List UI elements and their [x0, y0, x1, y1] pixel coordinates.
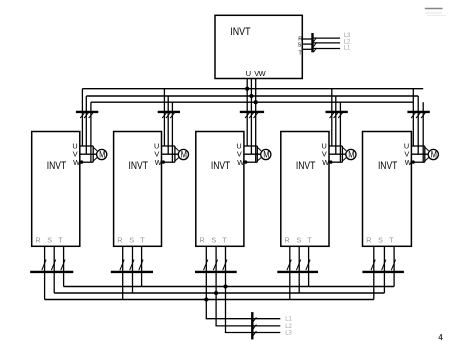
wire U3-V to motor (middle row): [244, 153, 261, 155]
junction dot U3-S on bus S: [214, 291, 218, 295]
terminal labels U V W of U2: [154, 142, 162, 168]
wire U0-U output down to bus U and motor M3: [246, 79, 248, 147]
inverter U5 (INVT drive 5): [363, 132, 412, 247]
wire QF0 to terminal L1: [314, 48, 341, 50]
svg-text:M: M: [99, 149, 105, 159]
svg-text:M: M: [348, 149, 354, 159]
motor cable trunk right edge (M2): [175, 146, 179, 162]
svg-text:W: W: [73, 158, 80, 167]
wire U2-S down to bottom bus: [132, 246, 134, 293]
svg-text:M: M: [263, 149, 269, 159]
svg-text:INVT: INVT: [47, 160, 66, 172]
svg-text:INVT: INVT: [296, 160, 315, 172]
wire U5-V to motor (middle row): [411, 153, 428, 155]
svg-text:INVT: INVT: [211, 160, 230, 172]
terminal labels U V W of U0: [246, 69, 266, 78]
net labels L3 L2 L1 (top right supply): [344, 33, 351, 51]
terminal labels R S T of U3: [199, 236, 227, 245]
wire U5-S down to bottom bus: [383, 246, 385, 293]
junction dot U0-U on bus U: [245, 87, 249, 91]
wire U4-U to motor (top row): [329, 145, 342, 147]
wire bus tap 1 down to motor M1: [81, 89, 83, 146]
terminal labels R S T of U1: [35, 236, 63, 245]
breaker QF3 (bar below U3): [195, 260, 237, 272]
inverter U3 (INVT drive 3): [196, 132, 244, 247]
inverter U0 (top bypass INVT drive): [215, 15, 302, 78]
bus U (top common bus line 1): [82, 88, 423, 90]
bus S (bottom bus line middle): [54, 292, 384, 294]
wire U1-S down to bottom bus: [53, 246, 55, 293]
svg-text:T: T: [307, 236, 312, 245]
svg-text:W: W: [259, 69, 266, 78]
breaker QF1 (bar below U1): [30, 260, 73, 272]
wire U0-V output down to bus V and motor M3: [250, 79, 252, 155]
svg-text:T: T: [140, 236, 145, 245]
junction dot at U5-W terminal: [412, 160, 415, 163]
wire bus tap 2 down to motor M2: [167, 96, 169, 154]
wire U4-V to motor (middle row): [329, 153, 346, 155]
wire U4-R down to bottom bus: [289, 246, 291, 299]
svg-text:S: S: [129, 236, 134, 245]
inverter U4 (INVT drive 4): [281, 132, 329, 247]
wire U3-S down to bus S and mains L2: [215, 246, 217, 326]
svg-text:W: W: [237, 158, 244, 167]
mains breaker QF0b (vertical bar, bottom): [252, 312, 256, 339]
svg-text:R: R: [117, 236, 122, 245]
wire U2-T down to bottom bus: [141, 246, 143, 286]
svg-text:R: R: [199, 236, 204, 245]
svg-text:R: R: [366, 236, 371, 245]
svg-text:L3: L3: [285, 330, 292, 336]
motor M1: [97, 149, 107, 159]
wire bus tap 3 down to motor M5: [422, 102, 424, 162]
svg-text:W: W: [322, 158, 329, 167]
junction dot at U2-W terminal: [162, 160, 165, 163]
svg-text:S: S: [296, 236, 301, 245]
wire breaker QF0b to terminal L1: [253, 318, 280, 320]
terminal labels R S T of U4: [284, 236, 312, 245]
disconnect switch QS4 (bar above motor tee): [326, 112, 348, 118]
svg-text:L1: L1: [285, 317, 292, 323]
motor M2: [178, 149, 188, 159]
svg-text:S: S: [298, 43, 302, 49]
motor M5: [428, 149, 438, 159]
wire U3-W to motor (bottom row): [244, 161, 257, 163]
bus W (top common bus line 3): [91, 101, 413, 103]
wire U2-U to motor (top row): [162, 145, 175, 147]
junction dot at U1-W terminal: [80, 160, 83, 163]
wire U0 phase 1 to disconnect QF0: [302, 38, 312, 40]
wire U1-T down to bottom bus: [63, 246, 65, 286]
disconnect switch QF0 (vertical bar): [313, 33, 317, 52]
terminal labels R S T of U2: [117, 236, 145, 245]
wire U4-S down to bottom bus: [298, 246, 300, 293]
motor cable trunk right edge (M4): [342, 146, 346, 162]
wire U0-W output down to bus W and motor M3: [255, 79, 257, 163]
wire mains L1 horizontal run to breaker QF0b: [206, 318, 253, 320]
wire U4-T down to bottom bus: [308, 246, 310, 286]
svg-text:W: W: [405, 158, 412, 167]
wire U2-V to motor (middle row): [162, 153, 179, 155]
wire U0 phase 3 to disconnect QF0: [302, 48, 312, 50]
svg-text:T: T: [222, 236, 227, 245]
wire U3-T down to bus T and mains L3: [225, 246, 227, 332]
svg-text:M: M: [431, 149, 437, 159]
wire U2-W to motor (bottom row): [162, 161, 175, 163]
motor cable trunk right edge (M3): [257, 146, 261, 162]
breaker QF2 (bar below U2): [111, 260, 153, 272]
motor cable trunk right edge (M5): [425, 146, 429, 162]
wire breaker QF0b to terminal L3: [253, 332, 280, 334]
wire U3-R down to bus R and mains L1: [205, 246, 207, 318]
wire breaker QF0b to terminal L2: [253, 325, 280, 327]
wire U0 phase 2 to disconnect QF0: [302, 43, 312, 45]
wire U5-U to motor (top row): [411, 145, 424, 147]
bus R (bottom bus line bottom): [45, 299, 374, 301]
wire U1-W to motor (bottom row): [80, 161, 93, 163]
inverter U2 (INVT drive 2): [114, 132, 162, 247]
svg-text:S: S: [47, 236, 52, 245]
svg-text:4: 4: [438, 333, 443, 342]
terminal labels U V W of U1: [72, 142, 80, 168]
inverter U1 (INVT drive 1): [32, 132, 80, 247]
svg-text:R: R: [35, 236, 40, 245]
motor M4: [346, 149, 356, 159]
wire bus tap 1 down to motor M2: [163, 89, 165, 146]
wire bus tap 1 down to motor M5: [412, 89, 414, 146]
wire U5-T down to bottom bus: [393, 246, 395, 286]
svg-text:W: W: [155, 158, 162, 167]
motor cable trunk right edge (M1): [93, 146, 97, 162]
motor M3: [261, 149, 271, 159]
svg-text:INVT: INVT: [129, 160, 148, 172]
svg-text:INVT: INVT: [230, 26, 251, 38]
net labels L1 L2 L3 (bottom mains): [285, 317, 292, 337]
breaker QF4 (bar below U4): [277, 260, 318, 272]
svg-text:T: T: [298, 50, 302, 56]
junction dot U3-T on bus T: [223, 284, 227, 288]
junction dot at U3-W terminal: [244, 160, 247, 163]
svg-text:L1: L1: [344, 46, 351, 52]
terminal labels R S T of U5: [366, 236, 394, 245]
wire QF0 to terminal L3: [314, 37, 341, 39]
wire QF0 to terminal L2: [314, 42, 341, 44]
wire bus tap 1 down to motor M4: [331, 89, 333, 146]
wire U3-U to motor (top row): [244, 145, 257, 147]
junction dot U3-R on bus R: [204, 297, 208, 301]
svg-text:M: M: [181, 149, 187, 159]
terminal labels U V W of U4: [322, 142, 330, 168]
svg-text:U: U: [246, 69, 251, 78]
wire U1-U to motor (top row): [80, 145, 93, 147]
breaker QF5 (bar below U5): [362, 260, 404, 272]
revision dash mark (top right): [425, 8, 443, 10]
wire bus tap 2 down to motor M1: [85, 96, 87, 154]
svg-text:L3: L3: [344, 33, 351, 39]
wire U4-W to motor (bottom row): [329, 161, 342, 163]
wire bus tap 2 down to motor M5: [417, 96, 419, 154]
svg-text:S: S: [211, 236, 216, 245]
svg-text:INVT: INVT: [378, 160, 397, 172]
wire mains L3 horizontal run to breaker QF0b: [225, 332, 252, 334]
wire U5-W to motor (bottom row): [411, 161, 424, 163]
terminal labels U V W of U3: [236, 142, 244, 168]
svg-text:S: S: [378, 236, 383, 245]
wire bus tap 3 down to motor M2: [171, 102, 173, 162]
disconnect switch QS5 (bar above motor tee): [407, 112, 429, 118]
svg-text:L2: L2: [285, 324, 292, 330]
terminal labels U V W of U5: [404, 142, 412, 168]
bus T (bottom bus line top): [64, 286, 395, 288]
junction dot at U4-W terminal: [329, 160, 332, 163]
wire bus tap 3 down to motor M1: [90, 102, 92, 162]
wire U2-R down to bottom bus: [122, 246, 124, 299]
svg-text:T: T: [58, 236, 63, 245]
junction dot U0-W on bus W: [254, 100, 258, 104]
faint watermark text (top right): [426, 12, 447, 16]
bus V (top common bus line 2): [86, 95, 418, 97]
wire U1-R down to bottom bus: [44, 246, 46, 299]
terminal labels R S T of U0: [298, 37, 303, 57]
disconnect switch QS2 (bar above motor tee): [158, 112, 180, 118]
wire U5-R down to bottom bus: [373, 246, 375, 299]
wire U1-V to motor (middle row): [80, 153, 97, 155]
junction dot U0-V on bus V: [249, 94, 253, 98]
disconnect switch QS3 (bar above motor tee): [240, 112, 264, 118]
disconnect switch QS1 (bar above motor tee): [76, 112, 98, 118]
wire bus tap 2 down to motor M4: [335, 96, 337, 154]
svg-text:T: T: [389, 236, 394, 245]
svg-text:R: R: [284, 236, 289, 245]
wire bus tap 3 down to motor M4: [339, 102, 341, 162]
wire mains L2 horizontal run to breaker QF0b: [215, 325, 252, 327]
